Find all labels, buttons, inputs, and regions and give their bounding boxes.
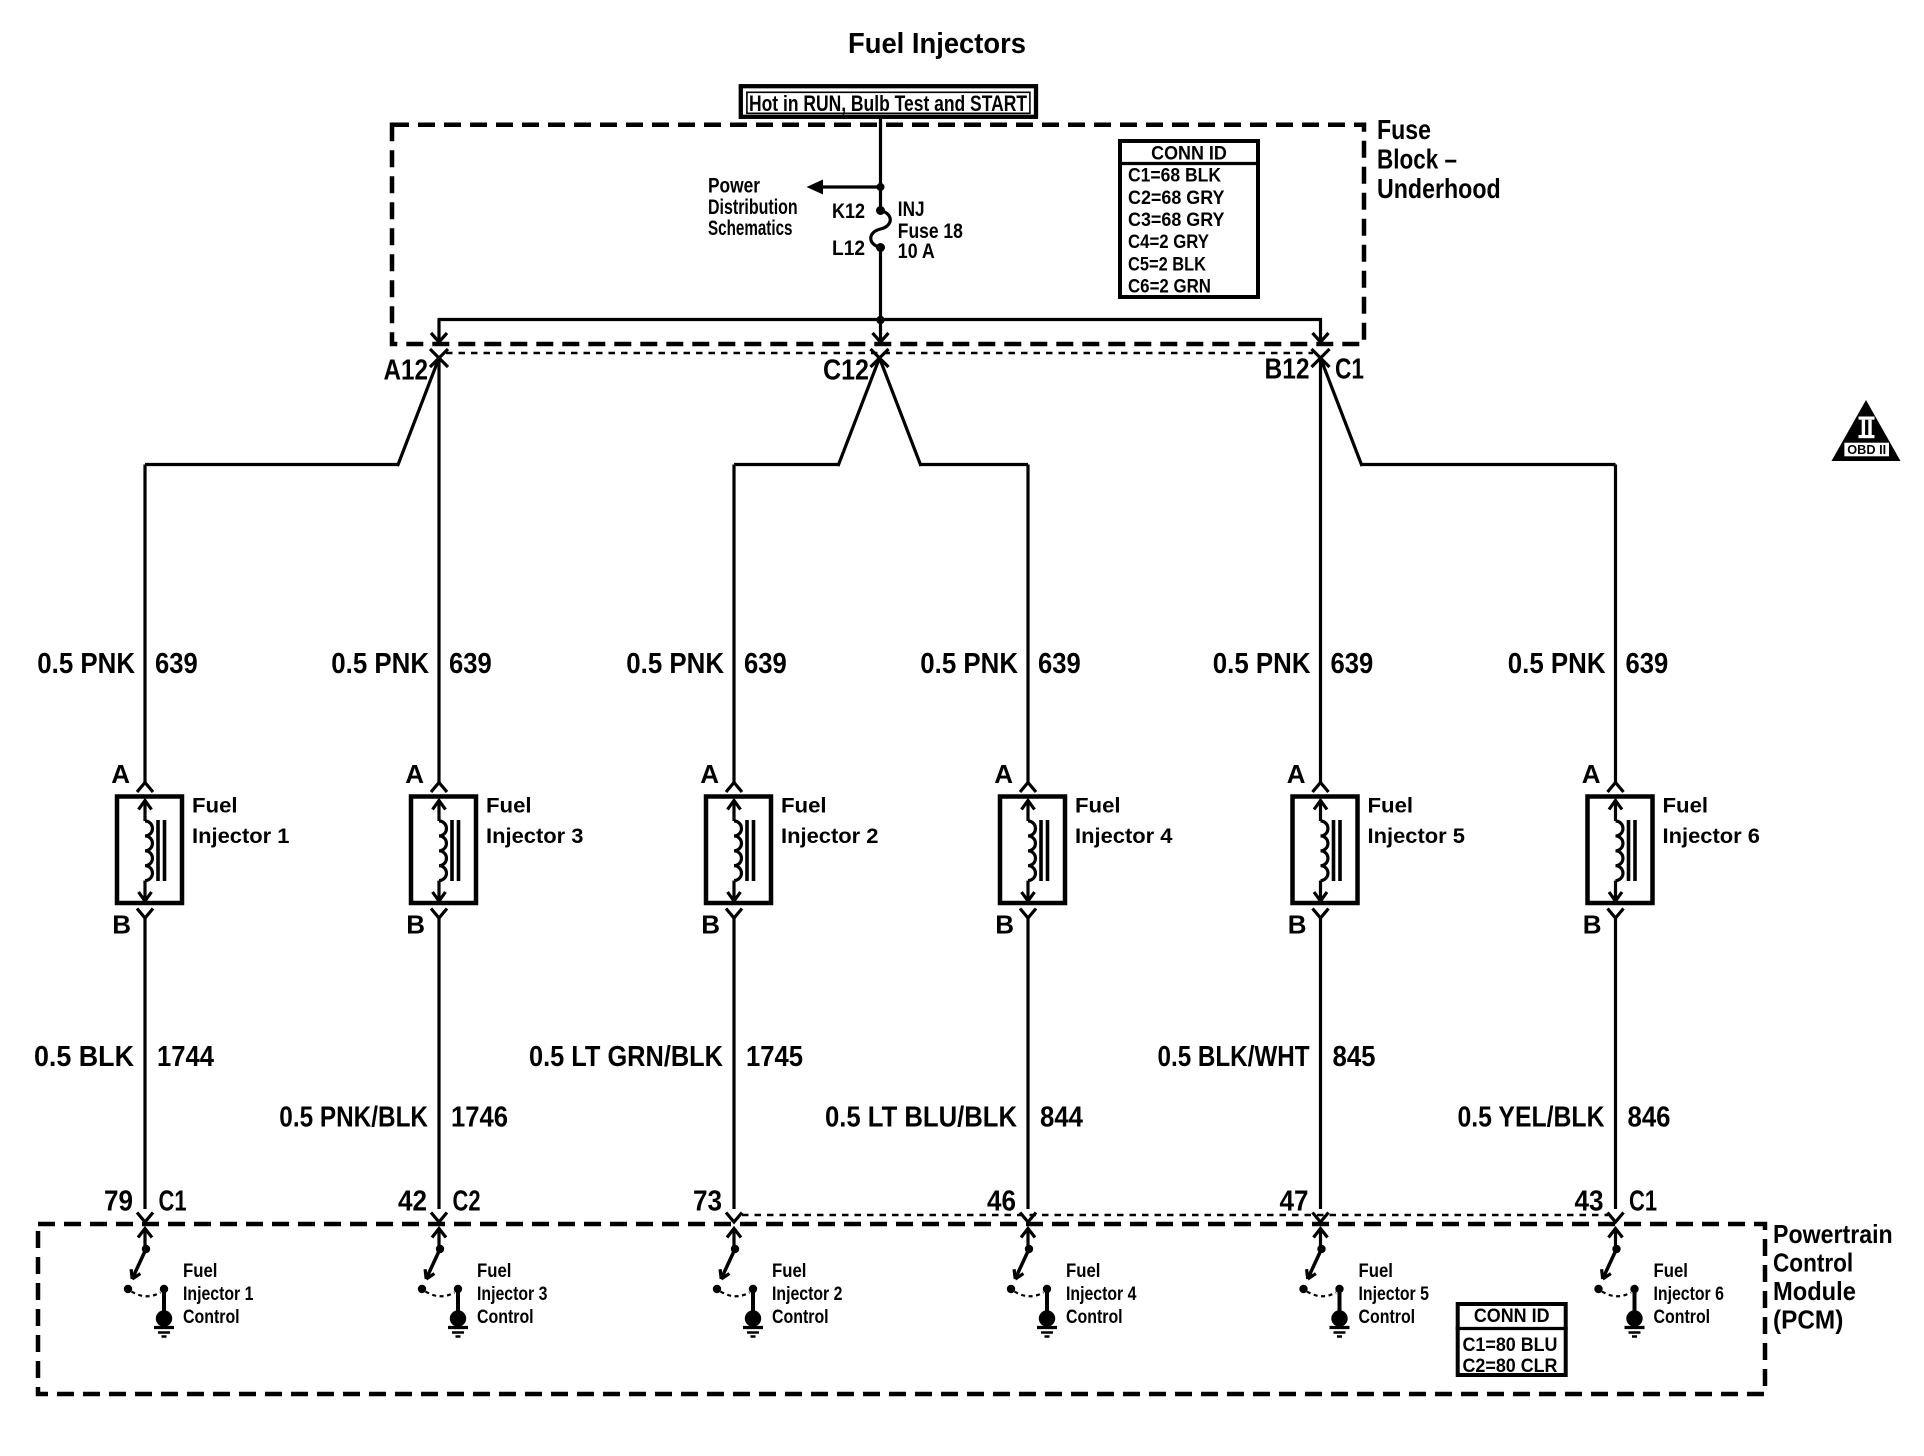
svg-text:Fuel: Fuel (1359, 1261, 1393, 1282)
svg-text:0.5 PNK: 0.5 PNK (920, 648, 1018, 680)
svg-text:L12: L12 (832, 237, 865, 260)
svg-text:B12: B12 (1265, 354, 1310, 386)
svg-text:43: 43 (1575, 1186, 1604, 1218)
svg-text:A: A (700, 759, 719, 789)
svg-text:CONN ID: CONN ID (1151, 144, 1227, 165)
svg-text:1745: 1745 (746, 1041, 803, 1073)
svg-text:Fuel: Fuel (1654, 1261, 1688, 1282)
svg-text:Fuel: Fuel (1066, 1261, 1100, 1282)
svg-text:Injector 1: Injector 1 (192, 825, 290, 848)
svg-text:639: 639 (449, 648, 492, 680)
svg-text:C1: C1 (1335, 354, 1364, 386)
svg-text:42: 42 (398, 1186, 427, 1218)
svg-text:OBD II: OBD II (1847, 442, 1886, 457)
svg-text:C5=2 BLK: C5=2 BLK (1128, 254, 1206, 275)
svg-text:B: B (406, 910, 425, 940)
svg-text:46: 46 (987, 1186, 1016, 1218)
svg-text:Fuse: Fuse (1377, 114, 1431, 145)
svg-text:79: 79 (104, 1186, 133, 1218)
svg-text:A12: A12 (384, 355, 429, 387)
svg-text:639: 639 (155, 648, 198, 680)
svg-text:A: A (1582, 759, 1601, 789)
svg-text:Module: Module (1773, 1276, 1856, 1306)
svg-text:Control: Control (1359, 1307, 1416, 1328)
svg-text:Injector 6: Injector 6 (1654, 1284, 1724, 1305)
svg-text:0.5 PNK: 0.5 PNK (37, 648, 135, 680)
svg-text:C6=2 GRN: C6=2 GRN (1128, 277, 1211, 298)
svg-text:Distribution: Distribution (708, 196, 798, 219)
svg-text:C1=68 BLK: C1=68 BLK (1128, 166, 1221, 187)
svg-text:0.5 BLK: 0.5 BLK (34, 1041, 134, 1073)
svg-text:C2=80 CLR: C2=80 CLR (1463, 1356, 1558, 1377)
svg-text:Injector 5: Injector 5 (1359, 1284, 1430, 1305)
svg-text:73: 73 (693, 1186, 722, 1218)
svg-text:A: A (1287, 759, 1306, 789)
svg-text:Fuel Injectors: Fuel Injectors (848, 28, 1026, 60)
svg-text:B: B (1288, 910, 1307, 940)
svg-text:Control: Control (1654, 1307, 1711, 1328)
svg-text:B: B (112, 910, 131, 940)
svg-text:Injector 4: Injector 4 (1075, 825, 1173, 848)
svg-text:C2=68 GRY: C2=68 GRY (1128, 188, 1225, 209)
svg-text:0.5 PNK/BLK: 0.5 PNK/BLK (279, 1102, 428, 1134)
svg-text:1746: 1746 (451, 1102, 508, 1134)
svg-text:Control: Control (477, 1307, 534, 1328)
svg-text:C1: C1 (1629, 1186, 1657, 1218)
svg-text:Block –: Block – (1377, 144, 1457, 175)
svg-text:0.5 BLK/WHT: 0.5 BLK/WHT (1158, 1041, 1310, 1073)
svg-text:1744: 1744 (157, 1041, 214, 1073)
svg-text:A: A (111, 759, 130, 789)
svg-text:639: 639 (1038, 648, 1081, 680)
svg-text:Injector 2: Injector 2 (772, 1284, 842, 1305)
svg-text:Fuel: Fuel (1368, 795, 1414, 818)
svg-text:Powertrain: Powertrain (1773, 1219, 1893, 1249)
svg-text:B: B (995, 910, 1014, 940)
svg-text:Injector 2: Injector 2 (781, 825, 879, 848)
svg-text:B: B (1583, 910, 1602, 940)
svg-text:639: 639 (1331, 648, 1374, 680)
svg-text:A: A (994, 759, 1013, 789)
svg-text:0.5 PNK: 0.5 PNK (331, 648, 429, 680)
svg-text:INJ: INJ (898, 198, 925, 221)
svg-text:Fuel: Fuel (772, 1261, 806, 1282)
svg-text:Fuel: Fuel (183, 1261, 217, 1282)
svg-text:Hot in RUN, Bulb Test and STAR: Hot in RUN, Bulb Test and START (749, 91, 1027, 116)
svg-text:Control: Control (772, 1307, 829, 1328)
svg-text:639: 639 (1626, 648, 1669, 680)
svg-text:CONN ID: CONN ID (1474, 1306, 1550, 1327)
svg-text:Fuel: Fuel (1075, 795, 1121, 818)
svg-text:Fuel: Fuel (1663, 795, 1709, 818)
svg-text:0.5 LT GRN/BLK: 0.5 LT GRN/BLK (529, 1041, 723, 1073)
svg-text:Injector 3: Injector 3 (477, 1284, 547, 1305)
svg-text:Injector 1: Injector 1 (183, 1284, 254, 1305)
svg-text:C4=2 GRY: C4=2 GRY (1128, 232, 1209, 253)
svg-text:Fuel: Fuel (477, 1261, 511, 1282)
svg-text:C2: C2 (453, 1186, 481, 1218)
svg-text:Injector 4: Injector 4 (1066, 1284, 1137, 1305)
svg-text:0.5 YEL/BLK: 0.5 YEL/BLK (1458, 1102, 1605, 1134)
svg-text:Injector 5: Injector 5 (1368, 825, 1466, 848)
svg-text:0.5 PNK: 0.5 PNK (626, 648, 724, 680)
svg-text:C1=80 BLU: C1=80 BLU (1463, 1335, 1558, 1356)
svg-text:639: 639 (744, 648, 787, 680)
svg-text:Fuel: Fuel (192, 795, 238, 818)
svg-text:Control: Control (1066, 1307, 1123, 1328)
svg-text:47: 47 (1280, 1186, 1309, 1218)
svg-text:C3=68 GRY: C3=68 GRY (1128, 210, 1225, 231)
svg-text:Fuel: Fuel (781, 795, 827, 818)
svg-text:846: 846 (1628, 1102, 1671, 1134)
svg-text:0.5 PNK: 0.5 PNK (1213, 648, 1311, 680)
svg-text:Injector 6: Injector 6 (1663, 825, 1761, 848)
svg-text:10 A: 10 A (898, 240, 935, 263)
svg-text:Fuel: Fuel (486, 795, 532, 818)
svg-text:Control: Control (1773, 1248, 1853, 1278)
svg-text:C1: C1 (159, 1186, 187, 1218)
svg-text:0.5 LT BLU/BLK: 0.5 LT BLU/BLK (825, 1102, 1017, 1134)
svg-text:Schematics: Schematics (708, 217, 793, 240)
svg-text:Injector 3: Injector 3 (486, 825, 584, 848)
svg-text:0.5 PNK: 0.5 PNK (1508, 648, 1606, 680)
svg-text:Power: Power (708, 174, 760, 197)
svg-text:844: 844 (1040, 1102, 1083, 1134)
svg-text:B: B (701, 910, 720, 940)
svg-text:(PCM): (PCM) (1773, 1305, 1843, 1335)
svg-text:Underhood: Underhood (1377, 173, 1501, 204)
svg-text:K12: K12 (832, 200, 865, 223)
svg-text:C12: C12 (823, 355, 869, 387)
svg-text:845: 845 (1333, 1041, 1376, 1073)
svg-text:Control: Control (183, 1307, 240, 1328)
svg-text:A: A (405, 759, 424, 789)
